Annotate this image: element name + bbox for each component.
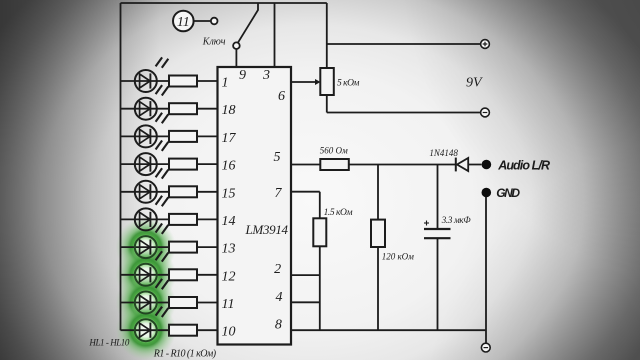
svg-text:14: 14 [222,214,236,229]
svg-text:HL1 - HL10: HL1 - HL10 [88,338,129,348]
svg-text:13: 13 [222,242,236,257]
svg-text:1N4148: 1N4148 [429,148,458,158]
svg-text:11: 11 [177,15,190,30]
svg-text:3.3 мкФ: 3.3 мкФ [441,215,472,225]
svg-text:9V: 9V [466,76,483,91]
svg-text:R1 - R10 (1 кОм): R1 - R10 (1 кОм) [153,349,217,360]
svg-text:1.5 кОм: 1.5 кОм [324,208,353,218]
svg-text:1: 1 [222,76,229,91]
svg-text:3: 3 [262,68,270,83]
svg-text:4: 4 [276,290,283,305]
svg-text:15: 15 [222,186,236,201]
svg-text:10: 10 [222,325,236,340]
svg-text:5 кОм: 5 кОм [337,78,359,88]
svg-text:16: 16 [222,159,236,174]
svg-text:120 кОм: 120 кОм [382,252,414,262]
svg-text:Audio L/R: Audio L/R [497,158,550,172]
svg-text:8: 8 [275,318,282,333]
svg-text:18: 18 [222,103,236,118]
svg-text:11: 11 [222,297,235,312]
svg-text:9: 9 [239,68,246,83]
svg-text:GND: GND [496,186,520,200]
svg-text:6: 6 [278,89,285,104]
svg-text:560 Ом: 560 Ом [320,145,348,155]
svg-text:5: 5 [274,150,281,165]
svg-text:2: 2 [274,262,281,277]
svg-text:Ключ: Ключ [202,37,226,48]
svg-text:LM3914: LM3914 [245,222,289,237]
svg-text:7: 7 [275,186,283,201]
svg-text:17: 17 [222,131,237,146]
svg-text:12: 12 [222,269,236,284]
